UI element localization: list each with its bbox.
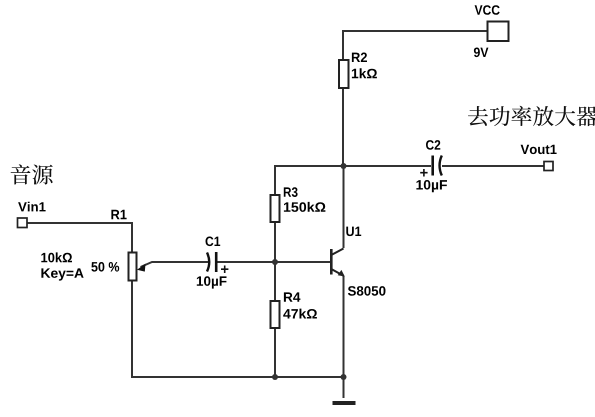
wire emitter to ground — [343, 276, 345, 398]
capacitor C1 — [207, 252, 216, 272]
ground — [333, 401, 356, 405]
value R2 1kOhm — [352, 68, 377, 78]
value C1 10uF — [197, 276, 227, 288]
wire R4 bottom to ground rail — [274, 328, 276, 377]
label R1 50% — [91, 262, 119, 272]
resistor R3 — [271, 195, 280, 222]
label C2 — [426, 140, 440, 150]
wire VCC to R2 top — [343, 31, 487, 60]
label R1 Key=A — [41, 268, 83, 280]
wire C2 to Vout1 terminal — [442, 165, 544, 167]
transistor Q1/U1 S8050 — [331, 249, 343, 276]
potentiometer R1 body — [129, 253, 137, 281]
wire R3 bottom to R4 top — [274, 222, 276, 301]
wire bottom rail — [131, 376, 343, 378]
label VCC — [475, 5, 500, 15]
value C2 10uF — [416, 180, 447, 192]
resistor R2 — [339, 60, 349, 88]
value R3 150kOhm — [284, 202, 326, 212]
text 去功率放大器 (to power amplifier) — [468, 106, 595, 126]
wire Vin1 to pot top — [27, 223, 132, 252]
label 9V — [474, 48, 489, 58]
wire R2 bottom to collector node — [342, 88, 344, 166]
VCC power terminal box — [488, 22, 509, 42]
label U1 — [346, 227, 361, 237]
wire pot bottom down — [131, 281, 133, 378]
resistor R4 — [271, 301, 280, 328]
capacitor C2 plus sign — [420, 169, 427, 177]
wire collector node horizontal to C2 — [275, 165, 431, 167]
terminal Vin1 — [18, 218, 28, 228]
node collector junction — [341, 163, 347, 169]
transistor emitter arrowhead — [338, 270, 345, 277]
value R1 10kOhm — [41, 252, 72, 262]
terminal Vout1 — [544, 162, 553, 171]
node bottom-left junction — [272, 374, 278, 380]
wire base node to transistor base — [216, 261, 331, 263]
label Vin1 — [18, 202, 45, 212]
label Vout1 — [521, 145, 557, 154]
node base junction — [272, 259, 278, 265]
potentiometer R1 wiper arrow — [137, 264, 146, 272]
wire collector vertical — [343, 166, 345, 248]
label R3 — [284, 187, 298, 197]
capacitor C2 — [433, 156, 442, 176]
node bottom-right junction — [341, 374, 347, 380]
capacitor C1 plus sign — [221, 266, 228, 274]
value U1 S8050 — [348, 286, 386, 296]
label R1 — [111, 210, 126, 219]
value R4 47kOhm — [283, 309, 317, 319]
wire node to R3 top — [274, 165, 276, 195]
text 音源 (audio source) — [11, 164, 53, 184]
label R4 — [284, 292, 301, 301]
label R2 — [352, 53, 367, 63]
wire pot wiper to C1 — [141, 262, 209, 267]
label C1 — [206, 237, 221, 247]
